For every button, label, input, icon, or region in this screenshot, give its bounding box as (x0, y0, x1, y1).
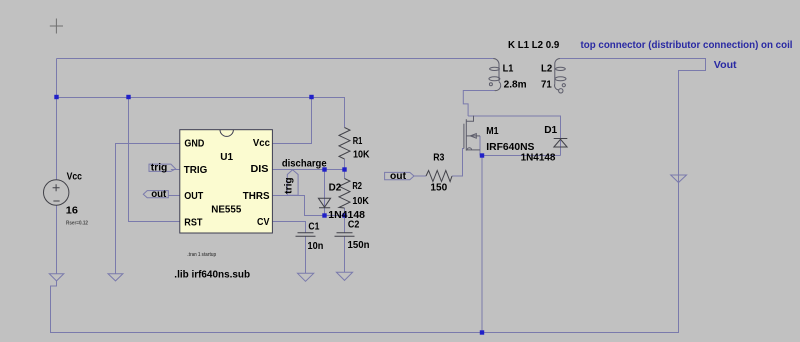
svg-text:150n: 150n (348, 240, 370, 251)
svg-text:10n: 10n (308, 241, 324, 252)
svg-text:1N4148: 1N4148 (328, 210, 365, 221)
svg-text:L1: L1 (503, 64, 514, 75)
svg-text:Rser=0.12: Rser=0.12 (66, 221, 88, 227)
svg-text:discharge: discharge (282, 159, 327, 170)
svg-text:NE555: NE555 (211, 204, 241, 215)
svg-text:D1: D1 (544, 125, 557, 136)
svg-text:10K: 10K (352, 196, 369, 207)
svg-text:C2: C2 (348, 219, 360, 230)
svg-text:CV: CV (257, 217, 269, 228)
svg-text:THRS: THRS (243, 191, 270, 202)
svg-text:1N4148: 1N4148 (521, 152, 556, 163)
svg-text:out: out (390, 171, 407, 182)
svg-text:C1: C1 (308, 221, 319, 232)
svg-text:.tran 1 startup: .tran 1 startup (187, 252, 216, 258)
svg-text:out: out (151, 189, 167, 200)
svg-text:R1: R1 (353, 136, 363, 147)
svg-text:L2: L2 (541, 64, 552, 75)
svg-text:top connector (distributor con: top connector (distributor connection) o… (581, 40, 793, 51)
svg-text:OUT: OUT (184, 191, 204, 202)
svg-text:Vout: Vout (714, 60, 737, 71)
svg-text:Vcc: Vcc (253, 138, 270, 149)
svg-text:DIS: DIS (251, 164, 269, 175)
svg-text:R2: R2 (352, 181, 362, 192)
svg-text:D2: D2 (329, 182, 342, 193)
svg-text:Vcc: Vcc (67, 172, 83, 183)
svg-text:10K: 10K (353, 150, 370, 161)
svg-text:2.8m: 2.8m (504, 80, 527, 91)
svg-text:TRIG: TRIG (184, 165, 208, 176)
svg-text:trig: trig (151, 163, 168, 174)
svg-text:RST: RST (184, 217, 203, 228)
svg-text:trig: trig (284, 177, 295, 194)
svg-text:M1: M1 (486, 126, 498, 137)
svg-text:150: 150 (430, 182, 447, 193)
svg-text:16: 16 (66, 205, 78, 216)
svg-text:71: 71 (541, 80, 552, 91)
svg-text:.lib irf640ns.sub: .lib irf640ns.sub (174, 269, 250, 280)
svg-text:U1: U1 (220, 152, 233, 163)
svg-text:K L1 L2 0.9: K L1 L2 0.9 (508, 40, 559, 51)
svg-text:IRF640NS: IRF640NS (486, 142, 534, 153)
svg-text:GND: GND (184, 138, 204, 149)
svg-text:R3: R3 (433, 153, 444, 164)
